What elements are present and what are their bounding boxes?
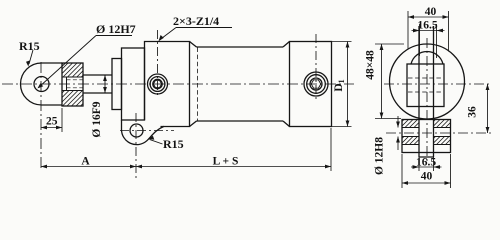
rear view horizontal centerline bbox=[384, 83, 492, 85]
dim A bbox=[41, 166, 136, 168]
head flange (front cap) bbox=[145, 42, 190, 127]
rod eye (clevis) outline R15 bbox=[21, 63, 63, 105]
port (rear) bbox=[304, 72, 328, 96]
dim Ø12H8 arrows bbox=[397, 116, 399, 150]
label Ø12H7 leader bbox=[39, 36, 133, 88]
svg-text:16.5: 16.5 bbox=[416, 157, 436, 169]
dim 40 (bottom) bbox=[402, 154, 451, 188]
svg-text:36: 36 bbox=[467, 106, 479, 118]
svg-text:Ø 16F9: Ø 16F9 bbox=[91, 101, 103, 137]
gland plate bbox=[112, 59, 122, 110]
rear port centerline bbox=[315, 34, 317, 100]
label R15 leader (left) bbox=[29, 50, 33, 64]
dim 48x48 bbox=[375, 44, 404, 119]
rod eye hole Ø12H7 bbox=[34, 77, 49, 92]
hatch right top bbox=[434, 120, 451, 128]
extension line at rear face bbox=[330, 128, 332, 171]
dim 36 bbox=[487, 84, 489, 133]
svg-text:25: 25 bbox=[46, 116, 58, 128]
svg-text:16.5: 16.5 bbox=[417, 20, 437, 32]
label 2x3-Z1/4 leader bbox=[160, 28, 233, 41]
port 2x3-Z1/4 (front) bbox=[148, 74, 168, 94]
cylinder tube bbox=[197, 47, 284, 121]
svg-text:R15: R15 bbox=[19, 39, 40, 53]
rear clevis block bbox=[402, 120, 451, 153]
hatch bottom band bbox=[62, 91, 83, 107]
svg-text:40: 40 bbox=[425, 6, 437, 18]
thread hidden lines bbox=[67, 80, 84, 88]
lug vertical centerline / extension for A and L+S bbox=[135, 113, 137, 178]
hatch left bottom bbox=[402, 137, 419, 145]
front lug outline bbox=[121, 120, 164, 145]
front lug hole bbox=[130, 124, 143, 137]
svg-text:40: 40 bbox=[421, 171, 433, 183]
dim D1 bbox=[332, 42, 352, 127]
hatch left top bbox=[402, 120, 419, 128]
svg-text:A: A bbox=[81, 156, 90, 168]
hatch right bottom bbox=[434, 137, 451, 145]
svg-text:Ø 12H7: Ø 12H7 bbox=[96, 22, 136, 36]
hatch top band bbox=[62, 63, 83, 77]
tube chamfers front bbox=[190, 42, 197, 127]
svg-text:Ø 12H8: Ø 12H8 bbox=[374, 137, 386, 175]
label R15 leader (lug) bbox=[150, 139, 163, 144]
dim L+S bbox=[136, 166, 331, 168]
body circle bbox=[390, 44, 465, 119]
lug horizontal centerline bbox=[120, 130, 174, 132]
head spigot bbox=[122, 48, 145, 120]
slot / tongue edges bbox=[419, 26, 434, 157]
hidden pin hole lines bbox=[408, 78, 443, 92]
svg-text:L + S: L + S bbox=[213, 156, 239, 168]
svg-text:R15: R15 bbox=[163, 137, 184, 151]
dim 16.5 (top) bbox=[412, 24, 445, 58]
rod nut block (hatched section) bbox=[62, 63, 83, 106]
front port centerline bbox=[157, 30, 159, 96]
lug boss arc bbox=[411, 52, 443, 64]
rear clevis pin centerline bbox=[386, 132, 492, 134]
dim 40 (top) bbox=[408, 11, 449, 52]
hidden piston line bbox=[197, 48, 199, 121]
square head plate bbox=[407, 64, 444, 107]
piston rod bbox=[83, 75, 112, 93]
node eye vertical centerline / extension for 25 and A bbox=[40, 62, 42, 170]
svg-text:2×3-Z1/4: 2×3-Z1/4 bbox=[173, 14, 219, 28]
svg-text:48×48: 48×48 bbox=[365, 50, 377, 80]
dim 16.5 (bottom) bbox=[419, 157, 434, 171]
wire main horizontal centerline bbox=[2, 83, 354, 85]
svg-text:D1: D1 bbox=[333, 79, 346, 91]
dim Ø16F9 (rod diameter) bbox=[104, 75, 106, 93]
tube chamfers rear bbox=[283, 42, 290, 127]
rear cap bbox=[290, 42, 332, 127]
rear view vertical centerline bbox=[426, 38, 428, 164]
dim 25 bbox=[61, 108, 63, 132]
